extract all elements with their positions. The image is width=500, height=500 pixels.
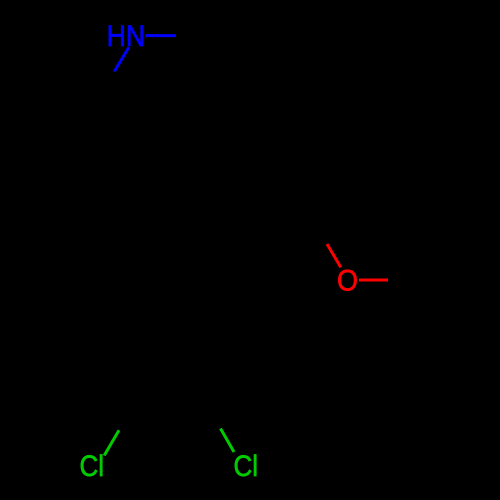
bond C-O1 (up-left diagonal, red half) xyxy=(327,244,341,267)
svg-text:HN: HN xyxy=(107,20,146,53)
bond C-Cl2 (green half) xyxy=(221,429,235,453)
bond O1-CH3 (methoxy methyl, red half) xyxy=(359,279,388,282)
bond N1-CH3 (N-methyl, blue half) xyxy=(145,34,176,37)
svg-text:Cl: Cl xyxy=(80,450,105,483)
bond N1-C2 (ring bond down-left, blue half) xyxy=(114,47,129,71)
svg-text:O: O xyxy=(337,264,358,297)
bond C-Cl1 (green half) xyxy=(104,430,119,455)
svg-text:Cl: Cl xyxy=(234,450,259,483)
